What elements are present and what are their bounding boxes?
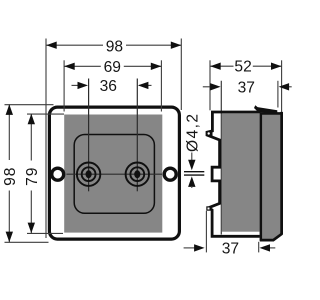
svg-text:37: 37 <box>238 79 255 96</box>
terminal T2 middle circle <box>130 167 144 181</box>
side view: flange/body separation line + 37-top left extension <box>220 81 222 235</box>
dimension 37 bottom: left arrow (outside, pointing right) <box>184 247 196 249</box>
dimension 37 top: right arrow (outside, pointing left) <box>289 86 292 88</box>
dimension 52: right arrowhead <box>271 63 282 70</box>
side view: lid top edge <box>260 112 282 115</box>
svg-text:Ø4,2: Ø4,2 <box>185 113 202 152</box>
side view: upper tab hole <box>208 132 210 134</box>
side view: upper flange tab blob <box>206 130 212 137</box>
dimension 69: left arrowhead <box>64 63 75 70</box>
diameter 4,2 callout: hole upper line <box>184 171 204 173</box>
front view: gray base plate <box>64 115 162 233</box>
terminal T2 center dot <box>134 170 140 178</box>
svg-text:98: 98 <box>106 38 123 55</box>
side view: lid gray fill <box>262 114 280 239</box>
dimension 52: dimension line <box>210 65 233 67</box>
dimension 79: extension lines <box>27 113 64 115</box>
svg-text:79: 79 <box>24 167 41 186</box>
dimension 52: left arrowhead <box>210 63 221 70</box>
diameter 4,2 callout: upper arrow (pointing down) <box>191 153 193 162</box>
svg-text:52: 52 <box>234 59 251 76</box>
side view: right edge <box>280 112 283 235</box>
dimension 98 top: left arrowhead <box>46 42 57 49</box>
side view: lid clip wedge <box>254 105 277 113</box>
terminal T1 outer circle <box>77 163 100 186</box>
front view: horizontal centerline <box>66 173 162 175</box>
dimension 98 left: dimension line <box>8 104 10 160</box>
dimension 69: extension lines <box>63 60 65 111</box>
dimension 98 top: extension lines <box>45 39 47 239</box>
dimension 98 left: down arrowhead <box>6 232 13 243</box>
diameter 4,2 callout: hole lower line <box>184 174 204 176</box>
side view: lower flange tab blob <box>206 206 210 210</box>
dimension 36: left arrow (outside, pointing right) <box>72 84 80 86</box>
front view: outer box outline <box>49 107 179 239</box>
dimension 98 top: dimension line <box>46 44 103 46</box>
dimension 98 left: extension lines <box>5 104 54 106</box>
terminal T1 center dot <box>86 170 92 178</box>
svg-text:36: 36 <box>100 78 117 95</box>
svg-text:37: 37 <box>222 240 239 257</box>
dimension 69: right arrowhead <box>151 63 162 70</box>
right mounting ear <box>164 168 176 180</box>
dimension 98 left: up arrowhead <box>6 104 13 115</box>
dimension 36: right arrow (outside, pointing left) <box>139 84 152 86</box>
terminal T1 vertical centerline / 36-dim extension <box>88 79 90 192</box>
side view: lid bottom edge with chamfer <box>260 234 282 240</box>
dimension 79: up arrowhead <box>28 114 35 125</box>
svg-text:69: 69 <box>104 59 121 76</box>
dimension 37 top: left arrow (outside, pointing right) <box>203 86 212 88</box>
front view: inner rounded cover outline <box>74 135 154 214</box>
dimension 69: dimension line <box>64 65 101 67</box>
side view: body gray fill <box>222 114 260 232</box>
side view: lower tab hole <box>208 208 210 210</box>
dimension 52: extension lines <box>209 60 211 110</box>
side view: flange outline <box>207 112 261 236</box>
diameter 4,2 callout: lower arrow (pointing up) <box>188 176 195 187</box>
terminal T2 vertical centerline / 36-dim extension <box>136 79 138 192</box>
terminal T2 outer circle <box>126 163 149 186</box>
dimension 98 top: right arrowhead <box>171 42 182 49</box>
side view: lid joint line <box>260 113 263 241</box>
dimension 79: dimension line <box>30 114 32 161</box>
dimension 79: down arrowhead <box>28 223 35 234</box>
left mounting ear <box>52 168 64 180</box>
svg-text:98: 98 <box>2 167 19 186</box>
terminal T1 middle circle <box>82 167 96 181</box>
dimension 37 bottom: right arrow (outside, pointing left) <box>269 247 275 249</box>
dimension 37 bottom: extension lines <box>205 211 207 253</box>
dimension 37 top: right extension line (wedge edge) <box>277 81 279 108</box>
